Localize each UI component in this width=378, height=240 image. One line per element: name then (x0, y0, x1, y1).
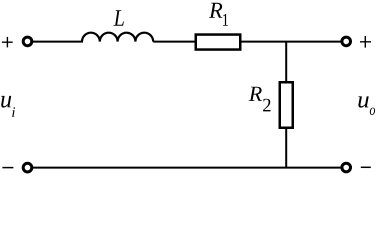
bottom wire (33, 167, 342, 169)
minus bottom-left (2, 167, 13, 169)
label u_i (1, 96, 15, 117)
label u_o (358, 96, 375, 115)
label R2 (249, 87, 271, 112)
resistor R2 (280, 82, 293, 128)
plus top-left (2, 37, 13, 48)
label L (113, 10, 123, 26)
inductor L (82, 33, 153, 42)
terminal bottom-right (342, 163, 351, 172)
wire junction-to-R2 (285, 42, 287, 82)
wire top-left (terminal to inductor) (33, 41, 83, 43)
terminal top-right (342, 37, 351, 46)
minus bottom-right (361, 166, 371, 168)
label R1 (209, 3, 228, 26)
wire R2-to-bottom-rail (285, 128, 287, 168)
terminal top-left (23, 37, 32, 46)
plus top-right (360, 36, 371, 48)
wire R1-to-right-terminal (242, 41, 342, 43)
terminal bottom-left (23, 163, 32, 172)
resistor R1 (196, 35, 241, 50)
wire inductor-to-R1 (153, 41, 195, 43)
